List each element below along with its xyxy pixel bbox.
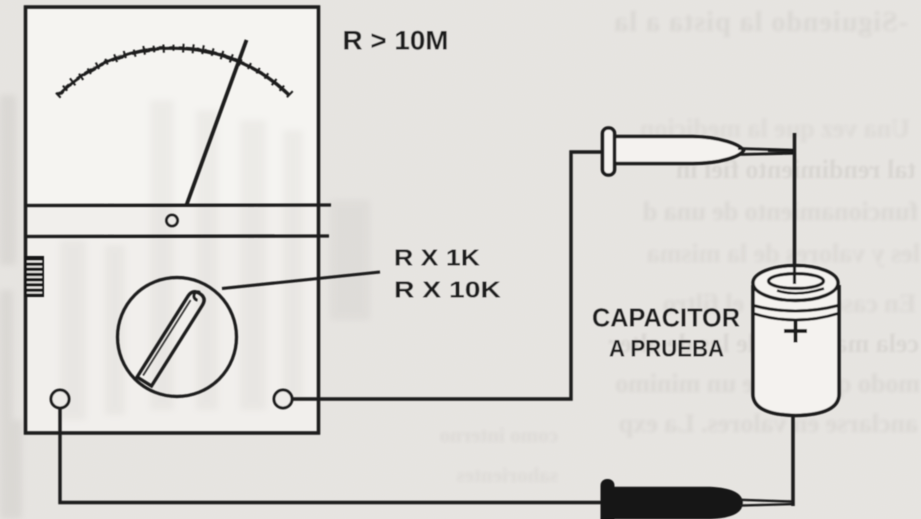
wire: top probe tip down to capacitor [793,133,797,271]
zero-adjust thumbwheel [25,256,44,297]
left margin scan smudge [0,95,22,519]
bright paper inside meter body [27,9,317,431]
can body [753,285,839,416]
faint scan bands inside meter body [60,100,370,420]
svg-text:CAPACITOR: CAPACITOR [592,305,740,333]
can top ellipse [753,266,838,301]
top probe metal tip [738,149,794,155]
meter needle [187,40,247,205]
svg-text:-Siguiendo la pista a la: -Siguiendo la pista a la [613,7,908,38]
wire: left jack down and along bottom [60,408,601,503]
knob pointer tip notch [194,292,200,300]
knob pointer bar [137,289,207,386]
svg-text:como interno: como interno [440,423,558,447]
right terminal jack [274,390,292,408]
top probe collar [603,128,615,175]
capacitor under test [753,266,839,416]
wire: right jack to top probe [292,152,602,399]
meter face lower line 2 [24,234,329,238]
meter face lower line 1 [24,203,331,207]
top test probe body [603,128,795,175]
svg-text:les y valores de la misma: les y valores de la misma [647,239,920,268]
multimeter body outline [26,7,319,433]
meter needle pivot [167,215,178,226]
meter scale arc [58,48,289,95]
wire: capacitor bottom to bottom probe tip [791,415,795,506]
svg-text:R X 10K: R X 10K [394,277,501,303]
scale tick marks [56,44,293,98]
crimp ring 1 [754,306,839,312]
leader line from knob to range label [222,272,380,289]
bottom probe body [610,488,742,518]
svg-text:funcionamiento de una d: funcionamiento de una d [642,197,918,226]
svg-text:R > 10M: R > 10M [343,26,449,56]
svg-text:R X 1K: R X 1K [394,245,480,271]
vent inner ellipse [769,274,824,289]
crimp ring 2 [754,314,839,321]
svg-text:sahorientes: sahorientes [457,463,559,487]
left terminal jack [51,390,69,408]
bottom probe tip [740,500,794,506]
range selector knob circle [118,278,237,397]
svg-text:A PRUEBA: A PRUEBA [609,336,724,363]
ghost bleed-through text group [440,7,920,487]
plus polarity mark [784,320,807,343]
wire stub into vent [793,266,796,284]
bottom test probe (black) [601,479,795,519]
vent lower arc [777,289,824,294]
bottom probe collar [601,479,615,519]
